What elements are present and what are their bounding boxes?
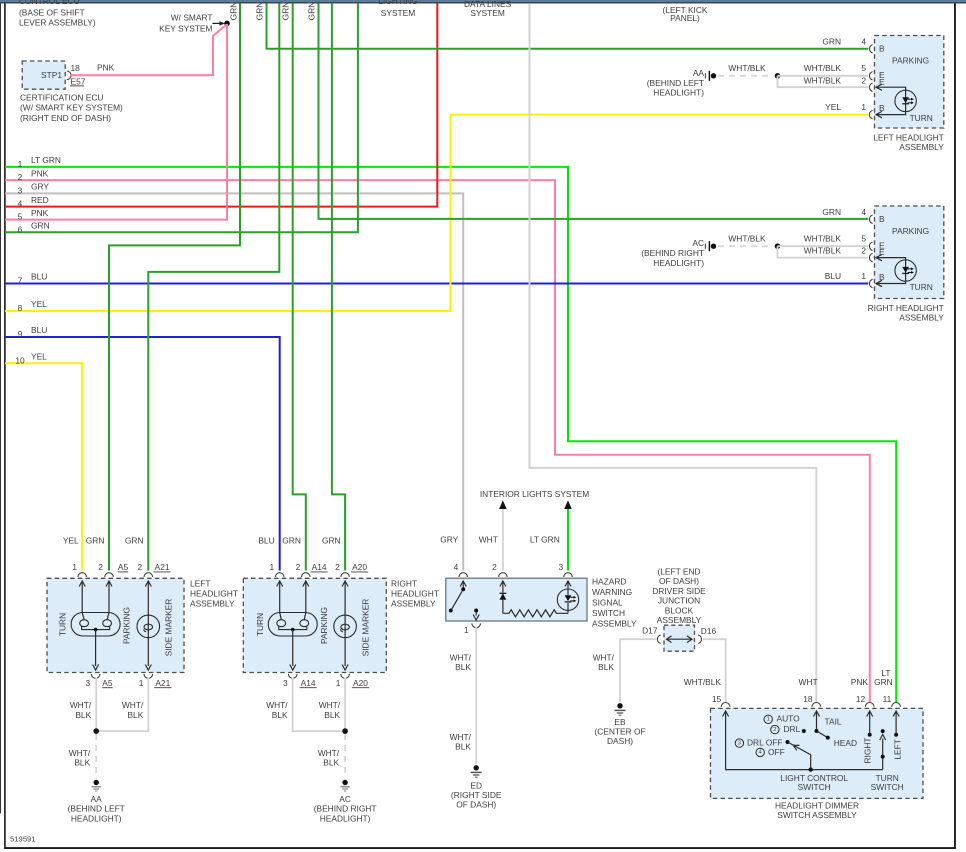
svg-text:BLK: BLK	[75, 710, 91, 720]
svg-text:(BEHIND RIGHT: (BEHIND RIGHT	[641, 248, 704, 258]
svg-text:WHT/: WHT/	[266, 700, 288, 710]
splice node on WHT/BLK (right)	[775, 243, 781, 249]
svg-text:SWITCH: SWITCH	[871, 782, 904, 792]
svg-text:DRL OFF: DRL OFF	[747, 737, 783, 747]
left bottom headlight assembly box	[47, 578, 184, 672]
top connector arc x=109.0 (left)	[105, 573, 114, 577]
svg-text:3: 3	[738, 740, 741, 746]
connector D17 arc	[657, 635, 660, 643]
contact HEAD	[826, 736, 830, 740]
svg-text:4: 4	[18, 199, 23, 209]
svg-text:WHT: WHT	[479, 535, 498, 545]
svg-text:GRN: GRN	[874, 677, 893, 687]
svg-text:3: 3	[283, 678, 288, 688]
svg-text:D17: D17	[642, 626, 658, 636]
svg-text:(BEHIND RIGHT: (BEHIND RIGHT	[314, 803, 377, 813]
svg-text:A5: A5	[118, 562, 129, 572]
wire WHT/BLK from D16 to dimmer pin 15	[703, 639, 726, 702]
svg-text:RIGHT: RIGHT	[391, 579, 417, 589]
svg-text:WHT/BLK: WHT/BLK	[804, 246, 842, 256]
ground AA symbol	[92, 780, 101, 791]
right bottom headlight assembly box	[243, 578, 386, 672]
svg-text:18: 18	[803, 694, 813, 704]
ground point AC behind headlight	[705, 241, 716, 251]
svg-text:TAIL: TAIL	[825, 716, 842, 726]
svg-text:DRIVER SIDE: DRIVER SIDE	[652, 586, 706, 596]
svg-text:A5: A5	[102, 678, 113, 688]
svg-text:1: 1	[139, 678, 144, 688]
wire WHT to hazard pin 2	[502, 509, 504, 571]
turn LED lamp (right)	[895, 260, 916, 281]
svg-text:A21: A21	[155, 562, 170, 572]
svg-text:YEL: YEL	[825, 102, 841, 112]
caption HAZARD WARNING SIGNAL SWITCH ASSEMBLY	[592, 577, 637, 629]
hazard diode (pin 2 branch)	[500, 581, 506, 593]
hazard indicator LED	[565, 581, 571, 613]
pin 4 connector arc (left)	[870, 45, 873, 53]
svg-text:1: 1	[269, 562, 274, 572]
svg-text:10: 10	[15, 355, 25, 365]
svg-text:2: 2	[18, 172, 23, 182]
svg-text:HEADLIGHT: HEADLIGHT	[190, 589, 238, 599]
svg-text:2: 2	[98, 562, 103, 572]
svg-text:SIGNAL: SIGNAL	[592, 598, 623, 608]
wire GRN feed to bottom-right headlight pin 2 A20	[332, 3, 345, 570]
svg-text:A20: A20	[352, 562, 367, 572]
svg-text:A14: A14	[301, 678, 316, 688]
turn LED lamp (left)	[895, 90, 916, 111]
svg-text:YEL: YEL	[31, 299, 47, 309]
svg-text:SYSTEM: SYSTEM	[381, 8, 415, 18]
dimmer top connector arcs	[721, 703, 730, 707]
svg-text:SIDE MARKER: SIDE MARKER	[360, 599, 370, 657]
wire 9 BLU from left connector	[5, 337, 280, 571]
ground point AA behind headlight	[705, 71, 716, 81]
wire 4 RED from left connector	[5, 3, 437, 206]
ground caption AA	[647, 68, 705, 98]
svg-text:GRN: GRN	[822, 37, 841, 47]
svg-text:LEVER ASSEMBLY): LEVER ASSEMBLY)	[19, 18, 96, 28]
svg-text:TURN: TURN	[58, 613, 68, 636]
svg-text:LEFT: LEFT	[190, 579, 210, 589]
wire WHT/BLK from pin 1 (left bottom)	[96, 678, 148, 732]
bulb output line to pin 3 (left)	[93, 630, 99, 670]
svg-text:WHT/: WHT/	[450, 653, 472, 663]
svg-text:BLK: BLK	[74, 758, 90, 768]
bulb common node (right)	[291, 628, 295, 632]
turn lamp internal circuit (right)	[876, 254, 906, 286]
svg-text:EB: EB	[614, 717, 626, 727]
svg-text:(LEFT END: (LEFT END	[657, 566, 700, 576]
svg-text:GRN: GRN	[229, 2, 239, 21]
svg-text:1: 1	[72, 562, 77, 572]
dashed WHT/BLK to ground (left bottom)	[95, 734, 97, 779]
caption LEFT HEADLIGHT ASSEMBLY (bottom)	[190, 579, 238, 609]
ground EB symbol	[615, 703, 626, 715]
svg-text:B: B	[879, 44, 885, 54]
svg-text:1: 1	[861, 271, 866, 281]
pin 1 connector arc (left)	[870, 110, 873, 118]
wire WHT/BLK to pin 2 (right)	[778, 246, 869, 257]
arrow to interior lights (WHT)	[499, 500, 507, 509]
svg-text:2: 2	[296, 562, 301, 572]
svg-text:BLK: BLK	[272, 710, 288, 720]
headlight dimmer switch assembly box	[711, 708, 924, 798]
svg-text:GRN: GRN	[307, 2, 317, 21]
wire WHT from data lines system to dimmer pin 18	[530, 3, 817, 702]
svg-text:3: 3	[558, 562, 563, 572]
svg-text:PNK: PNK	[851, 677, 869, 687]
bulb output line to pin 3 (right)	[290, 630, 296, 670]
svg-text:BLU: BLU	[31, 272, 47, 282]
svg-text:TURN: TURN	[255, 613, 265, 636]
ground ED symbol	[471, 765, 482, 777]
svg-text:18: 18	[71, 63, 81, 73]
svg-text:LT GRN: LT GRN	[31, 155, 61, 165]
caption RIGHT HEADLIGHT ASSEMBLY (bottom)	[391, 579, 439, 609]
svg-text:8: 8	[18, 303, 23, 313]
svg-text:B: B	[879, 272, 885, 282]
ground ED caption	[451, 780, 502, 809]
svg-text:D16: D16	[701, 626, 717, 636]
ground caption AC	[641, 238, 704, 268]
splice node on WHT/BLK (left)	[775, 73, 781, 79]
svg-text:BLK: BLK	[598, 662, 614, 672]
svg-text:WHT: WHT	[799, 677, 818, 687]
svg-text:B: B	[879, 103, 885, 113]
side marker bulb (left)	[137, 615, 160, 638]
turn signal dual-filament bulb (right)	[268, 613, 317, 637]
svg-text:AA: AA	[693, 68, 705, 78]
splice node (right bottom)	[342, 728, 348, 734]
svg-text:LIGHTING: LIGHTING	[378, 0, 418, 6]
contact DRL	[802, 729, 806, 733]
caption driver side junction block assembly	[652, 566, 706, 625]
svg-text:OF DASH): OF DASH)	[659, 576, 699, 586]
svg-text:WHT/BLK: WHT/BLK	[804, 63, 842, 73]
pin 15 internal line and common bus	[723, 711, 883, 770]
light control switch lever	[789, 743, 810, 770]
svg-text:LT GRN: LT GRN	[530, 535, 560, 545]
wire WHT/BLK from EB ground to D17	[620, 639, 657, 702]
svg-text:WHT/BLK: WHT/BLK	[804, 234, 842, 244]
pin 2 connector arc (right)	[870, 253, 873, 261]
svg-text:5: 5	[861, 63, 866, 73]
left headlight assembly box	[875, 36, 944, 129]
wire 1 LT GRN from left connector	[5, 167, 896, 703]
svg-text:JUNCTION: JUNCTION	[658, 596, 700, 606]
svg-text:HEADLIGHT: HEADLIGHT	[391, 589, 439, 599]
connector STP1 (certification ECU)	[22, 61, 86, 89]
wire GRN feed to bottom-right headlight pin 2 A14	[293, 3, 306, 570]
svg-text:GRN: GRN	[86, 535, 105, 545]
bulb common node (left)	[94, 628, 98, 632]
svg-text:HEADLIGHT): HEADLIGHT)	[71, 813, 122, 823]
svg-text:GRN: GRN	[282, 535, 301, 545]
top connector arc x=345.1 (right)	[341, 573, 350, 577]
svg-text:SWITCH: SWITCH	[592, 608, 625, 618]
wire GRN feed to right headlight parking pin 4	[319, 3, 869, 219]
svg-text:WHT/: WHT/	[593, 653, 615, 663]
wire WHT/BLK hazard pin 1 to ground ED	[475, 627, 477, 765]
svg-text:BLK: BLK	[127, 710, 143, 720]
svg-text:STP1: STP1	[41, 70, 62, 80]
svg-text:PANEL): PANEL)	[670, 13, 700, 23]
pin 5 connector arc (left)	[870, 72, 873, 80]
wire WHT/BLK dashed to ground (left)	[718, 75, 773, 77]
svg-text:AA: AA	[91, 794, 103, 804]
svg-text:WHT/BLK: WHT/BLK	[728, 63, 766, 73]
connector D16 arc	[698, 635, 701, 643]
svg-text:E: E	[879, 247, 885, 257]
svg-text:7: 7	[18, 276, 23, 286]
svg-text:WHT/: WHT/	[450, 732, 472, 742]
svg-text:TURN: TURN	[910, 282, 933, 292]
circled position numbers 1-4	[764, 715, 772, 723]
svg-text:WHT/: WHT/	[319, 700, 341, 710]
svg-text:ASSEMBLY: ASSEMBLY	[899, 313, 944, 323]
svg-text:PNK: PNK	[97, 63, 115, 73]
svg-text:INTERIOR LIGHTS SYSTEM: INTERIOR LIGHTS SYSTEM	[480, 489, 589, 499]
contact common tail/head	[815, 729, 819, 733]
splice node (left bottom)	[93, 728, 99, 734]
svg-text:PNK: PNK	[31, 168, 49, 178]
svg-text:1: 1	[464, 625, 469, 635]
svg-text:RIGHT: RIGHT	[862, 737, 872, 763]
pin 5 connector arc (right)	[870, 242, 873, 250]
svg-text:(W/ SMART KEY SYSTEM): (W/ SMART KEY SYSTEM)	[20, 103, 123, 113]
svg-text:ASSEMBLY: ASSEMBLY	[592, 619, 637, 629]
pin 18 internal line (TAIL)	[814, 711, 828, 738]
svg-text:WHT/: WHT/	[69, 748, 91, 758]
ground caption AA	[68, 794, 125, 824]
top connector arc x=148.3 (left)	[144, 573, 153, 577]
svg-text:4: 4	[454, 562, 459, 572]
dashed WHT/BLK to ground (right bottom)	[344, 734, 346, 779]
wire 10 YEL from left connector	[5, 363, 82, 570]
svg-text:BLU: BLU	[825, 271, 841, 281]
hazard pin 1 node and exit	[474, 609, 478, 613]
wire 7 BLU from left connector	[5, 283, 868, 285]
svg-text:HEADLIGHT): HEADLIGHT)	[320, 813, 371, 823]
svg-text:1: 1	[861, 102, 866, 112]
svg-text:BLOCK: BLOCK	[665, 605, 694, 615]
svg-text:4: 4	[861, 37, 866, 47]
hazard top connector arcs	[459, 573, 468, 577]
svg-text:2: 2	[137, 562, 142, 572]
svg-text:A20: A20	[353, 678, 368, 688]
wire LT GRN to hazard pin 3	[567, 509, 569, 571]
hazard switch contacts and lever	[452, 581, 466, 609]
svg-text:SIDE MARKER: SIDE MARKER	[164, 599, 174, 657]
svg-text:WHT/: WHT/	[70, 700, 92, 710]
svg-text:RED: RED	[31, 195, 49, 205]
svg-text:GRN: GRN	[125, 535, 144, 545]
svg-text:5: 5	[18, 212, 23, 222]
svg-text:2: 2	[492, 562, 497, 572]
wire 8 YEL from left connector	[5, 115, 868, 311]
top connector arc x=279.7 (right)	[275, 573, 284, 577]
svg-text:GRY: GRY	[440, 535, 458, 545]
svg-text:BLU: BLU	[258, 535, 274, 545]
svg-text:PARKING: PARKING	[892, 56, 929, 66]
svg-text:GRN: GRN	[31, 221, 50, 231]
svg-text:B: B	[879, 214, 885, 224]
svg-text:OFF: OFF	[768, 747, 785, 757]
wire WHT/BLK from pin 1 (right bottom)	[344, 678, 346, 732]
svg-text:6: 6	[18, 224, 23, 234]
wire 2 PNK from left connector	[5, 180, 870, 702]
svg-text:5: 5	[861, 234, 866, 244]
svg-text:2: 2	[335, 562, 340, 572]
svg-text:DRL: DRL	[784, 724, 801, 734]
certification ECU caption	[20, 92, 123, 123]
bottom connector arcs (left)	[91, 674, 100, 678]
top connector arc x=305.8 (right)	[302, 573, 311, 577]
svg-text:GRY: GRY	[31, 182, 49, 192]
bus node (light control switch)	[809, 767, 813, 771]
svg-text:11: 11	[883, 694, 892, 704]
wire GRN feed to bottom-left headlight pin 2 A5	[109, 3, 240, 570]
wire WHT/BLK to pin 5 (right)	[778, 245, 869, 247]
svg-text:BLK: BLK	[455, 742, 471, 752]
svg-text:AC: AC	[692, 238, 704, 248]
svg-text:LEFT HEADLIGHT: LEFT HEADLIGHT	[873, 132, 944, 142]
svg-text:OF DASH): OF DASH)	[456, 800, 496, 810]
hazard resistor	[503, 610, 568, 617]
svg-text:E: E	[879, 77, 885, 87]
svg-text:ASSEMBLY: ASSEMBLY	[657, 615, 702, 625]
svg-text:(BEHIND LEFT: (BEHIND LEFT	[647, 78, 704, 88]
shift control ECU note (top left, cut)	[19, 0, 96, 28]
svg-text:(BEHIND LEFT: (BEHIND LEFT	[68, 803, 125, 813]
wire WHT/BLK dashed to ground (right)	[718, 245, 773, 247]
junction block pass-through arrow	[667, 636, 693, 643]
pin 4 connector arc (right)	[870, 215, 873, 223]
svg-text:519591: 519591	[10, 835, 36, 844]
pin 1 connector arc (right)	[870, 279, 873, 287]
svg-text:4: 4	[861, 207, 866, 217]
svg-text:1: 1	[18, 159, 23, 169]
svg-text:KEY SYSTEM: KEY SYSTEM	[159, 23, 212, 33]
svg-text:DASH): DASH)	[607, 736, 633, 746]
wire 5 PNK from left connector	[5, 24, 227, 220]
svg-text:ED: ED	[470, 780, 482, 790]
svg-text:CERTIFICATION ECU: CERTIFICATION ECU	[20, 92, 103, 102]
ground caption AC	[314, 794, 377, 824]
svg-text:BLK: BLK	[323, 758, 339, 768]
svg-text:3: 3	[85, 678, 90, 688]
svg-text:1: 1	[767, 717, 770, 723]
turn switch lever (neutral)	[881, 729, 885, 733]
svg-text:BLK: BLK	[324, 710, 340, 720]
svg-text:TURN: TURN	[910, 113, 933, 123]
svg-text:1: 1	[336, 678, 341, 688]
ground EB caption	[594, 717, 645, 746]
svg-text:HEAD: HEAD	[834, 738, 857, 748]
junction block box	[664, 625, 695, 651]
turn switch: pin 11 line	[893, 711, 899, 735]
svg-text:ASSEMBLY: ASSEMBLY	[190, 599, 235, 609]
svg-text:15: 15	[712, 694, 722, 704]
right headlight assembly box	[875, 206, 944, 299]
svg-text:GRN: GRN	[822, 207, 841, 217]
svg-text:AC: AC	[339, 794, 351, 804]
svg-text:E57: E57	[71, 77, 86, 87]
svg-text:HEADLIGHT): HEADLIGHT)	[653, 258, 704, 268]
wire WHT/BLK from pin 3 (right bottom)	[293, 678, 346, 732]
svg-text:12: 12	[856, 694, 866, 704]
wire: PNK from STP1 pin 18 up to splice	[70, 25, 226, 76]
pin 2 connector arc (left)	[870, 83, 873, 91]
svg-text:2: 2	[773, 727, 776, 733]
svg-text:PARKING: PARKING	[319, 607, 329, 644]
svg-text:WARNING: WARNING	[592, 587, 632, 597]
wire WHT/BLK to pin 2 (left)	[778, 76, 869, 87]
svg-text:SYSTEM: SYSTEM	[470, 8, 504, 18]
svg-text:ASSEMBLY: ASSEMBLY	[391, 599, 436, 609]
svg-text:WHT/: WHT/	[318, 748, 340, 758]
svg-text:GRN: GRN	[281, 2, 291, 21]
wire WHT/BLK to pin 5 (left)	[778, 75, 869, 77]
ground AC symbol	[341, 780, 350, 791]
top connector arc x=82.2 (left)	[78, 573, 87, 577]
svg-text:HAZARD: HAZARD	[592, 577, 626, 587]
svg-text:PARKING: PARKING	[122, 607, 132, 644]
svg-text:3: 3	[18, 186, 23, 196]
svg-text:WHT/BLK: WHT/BLK	[684, 677, 722, 687]
wire WHT/BLK from pin 3 (left bottom)	[95, 678, 97, 732]
svg-text:PARKING: PARKING	[892, 226, 929, 236]
svg-text:SWITCH: SWITCH	[798, 782, 831, 792]
wire GRN feed to bottom-left headlight pin 2 A21	[148, 3, 279, 570]
contact DRL OFF	[786, 740, 790, 744]
W/ SMART KEY SYSTEM callout arrow	[159, 12, 225, 33]
svg-text:A21: A21	[155, 678, 170, 688]
svg-text:LEFT: LEFT	[893, 739, 903, 759]
node: splice dot on PNK wire	[224, 21, 230, 27]
svg-text:ASSEMBLY: ASSEMBLY	[899, 142, 944, 152]
svg-text:W/ SMART: W/ SMART	[171, 12, 213, 22]
svg-text:2: 2	[861, 246, 866, 256]
svg-text:2: 2	[861, 75, 866, 85]
svg-text:GRN: GRN	[322, 535, 341, 545]
svg-text:WHT/BLK: WHT/BLK	[728, 234, 766, 244]
svg-text:RIGHT HEADLIGHT: RIGHT HEADLIGHT	[868, 303, 944, 313]
svg-text:HEADLIGHT): HEADLIGHT)	[653, 88, 704, 98]
svg-text:YEL: YEL	[63, 535, 79, 545]
svg-text:(RIGHT END OF DASH): (RIGHT END OF DASH)	[20, 113, 111, 123]
svg-text:YEL: YEL	[31, 352, 47, 362]
svg-text:AUTO: AUTO	[777, 713, 801, 723]
svg-text:(RIGHT SIDE: (RIGHT SIDE	[451, 790, 502, 800]
svg-text:SWITCH ASSEMBLY: SWITCH ASSEMBLY	[777, 810, 857, 820]
turn switch: pin 12 line	[867, 711, 873, 735]
svg-text:BLU: BLU	[31, 325, 47, 335]
bottom connector arcs (right)	[288, 674, 297, 678]
svg-text:WHT/BLK: WHT/BLK	[804, 75, 842, 85]
svg-text:(BASE OF SHIFT: (BASE OF SHIFT	[19, 7, 85, 17]
svg-text:CONTROL ECU: CONTROL ECU	[19, 0, 80, 6]
arrow to interior lights (LT GRN)	[564, 500, 572, 509]
wire GRN feed to left headlight parking pin 4	[267, 3, 869, 48]
hazard warning signal switch assembly box	[446, 578, 587, 621]
svg-text:WHT/: WHT/	[122, 700, 144, 710]
wire 3 GRY from left connector	[5, 193, 463, 570]
internal entry lines and arrows (right)	[277, 581, 348, 670]
svg-text:PNK: PNK	[31, 208, 49, 218]
turn signal dual-filament bulb (left)	[71, 613, 120, 637]
